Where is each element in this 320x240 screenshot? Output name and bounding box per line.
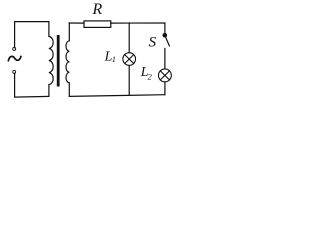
svg-text:1: 1	[112, 55, 116, 64]
svg-text:R: R	[92, 1, 103, 18]
svg-text:S: S	[149, 34, 157, 51]
svg-text:2: 2	[148, 72, 153, 82]
